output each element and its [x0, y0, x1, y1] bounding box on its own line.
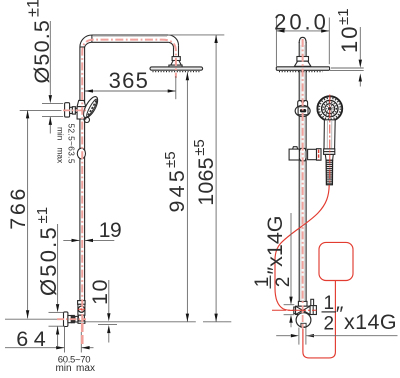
riser pipe centerline (side view, pink dash-dot): [82, 40, 176, 322]
pipe horizontal top run (side view): [92, 35, 168, 42]
handle nut band: [324, 149, 335, 155]
shower head connector nut (side view): [172, 57, 180, 61]
front valve right body: [310, 306, 316, 315]
upper escutcheon plate (side view): [65, 103, 70, 117]
front valve cross body: [296, 306, 311, 314]
svg-text:52.5~63.5: 52.5~63.5: [67, 124, 77, 164]
hand-shower holder bracket (side view): [77, 100, 86, 119]
dimension 766: [6, 110, 30, 318]
slider lock knob (side view): [77, 148, 85, 159]
dimension 60.5~70 min max: [55, 346, 95, 374]
svg-text:64: 64: [16, 327, 51, 351]
dimension 20.0: [274, 10, 329, 66]
upper wall-mount escutcheon ticks: [42, 103, 63, 116]
svg-text:max: max: [76, 363, 95, 374]
svg-text:min: min: [55, 363, 71, 374]
hose connector: [325, 154, 333, 160]
svg-text:±1: ±1: [25, 0, 43, 17]
pipe top-left bend (side view): [80, 35, 92, 47]
spray nozzles dotted row (front view): [279, 71, 323, 73]
svg-text:2: 2: [324, 313, 335, 334]
front valve right stub: [311, 299, 314, 306]
front valve bell circle: [296, 313, 311, 328]
valve lower body (side view): [78, 315, 84, 321]
svg-text:Ø50.5: Ø50.5: [30, 19, 54, 84]
svg-text:min: min: [56, 127, 66, 141]
svg-text:″x14G: ″x14G: [263, 216, 287, 275]
dimension 64: [5, 327, 64, 351]
front valve collar: [298, 301, 307, 306]
front head connector nut: [297, 57, 309, 62]
svg-text:19: 19: [99, 219, 121, 242]
slider holder pipe bulges: [299, 148, 306, 160]
slider holder right block: [308, 149, 317, 159]
lower stem (side view): [75, 316, 78, 322]
upper wall bracket tab (front view): [298, 101, 308, 107]
dimension 945 +-5: [162, 72, 189, 322]
upper wall bracket face plate: [298, 107, 308, 115]
upper wall-mount red centerline: [63, 109, 88, 111]
overhead shower disc (side view): [150, 67, 203, 70]
front pipe centerline (pink dash-dot): [302, 39, 304, 306]
lower wall nut (side view): [71, 315, 75, 323]
svg-text:Ø50.5: Ø50.5: [36, 225, 61, 296]
svg-text:x14G: x14G: [344, 310, 397, 334]
dimension O50.5 +-1 top: [25, 0, 55, 134]
svg-text:766: 766: [6, 186, 30, 230]
pipe elbow down to shower head (side view): [168, 35, 178, 57]
dimension 1/2 x14G left (rotated): [252, 213, 294, 327]
hand shower handle (front view): [324, 120, 335, 149]
supply stub centerline below valve (side view): [81, 323, 84, 347]
riser pipe vertical run (side view): [80, 46, 85, 301]
hand shower centerline (red): [329, 95, 331, 185]
svg-text:″: ″: [336, 302, 344, 326]
svg-text:2: 2: [273, 277, 294, 288]
lower nipple (side view): [68, 316, 71, 323]
valve foot (side view): [78, 321, 85, 323]
upper wall bracket slot: [300, 109, 306, 112]
lower centerline gray extension: [5, 318, 63, 320]
extension line flange face down: [64, 327, 66, 353]
svg-text:20.0: 20.0: [274, 10, 329, 35]
overhead shower disc (front view): [276, 67, 329, 71]
upper nipple (side view): [70, 107, 73, 113]
ribbed hose (front view): [326, 160, 333, 185]
upper stem (side view): [75, 108, 78, 112]
shower head mounting cap (side view): [169, 65, 182, 67]
svg-text:945: 945: [165, 167, 189, 212]
svg-text:max: max: [56, 148, 66, 165]
front valve left port: [294, 307, 296, 314]
mixer box outline (red rounded rect): [319, 242, 353, 280]
svg-text:±1: ±1: [34, 207, 51, 224]
outlet level line B: [98, 324, 117, 326]
svg-text:1065: 1065: [194, 157, 218, 206]
lower escutcheon ticks: [49, 312, 64, 326]
front head cone flange: [294, 61, 311, 66]
lower red centerline: [57, 318, 86, 320]
diverter valve collar (side view): [78, 301, 86, 305]
front riser pipe: [299, 37, 306, 301]
diverter knob (side view): [78, 306, 85, 312]
svg-text:±5: ±5: [191, 139, 208, 156]
slider holder left block (front view): [289, 147, 299, 160]
diverter valve body (side view): [78, 304, 85, 315]
svg-text:±5: ±5: [162, 151, 179, 168]
front valve bottom nub: [301, 323, 306, 327]
extension line pipe center down: [80, 332, 82, 353]
svg-text:1: 1: [324, 293, 335, 314]
dimension 365: [85, 68, 176, 99]
front valve pink centerline through bell: [302, 306, 304, 329]
red supply loop from box to valve: [303, 281, 336, 358]
dimension 10 (side view): [88, 278, 112, 342]
shower head ball joint cone (side view): [171, 61, 182, 66]
spray nozzles dotted row (side view): [153, 71, 201, 73]
upper nut (side view): [72, 107, 75, 114]
upper wall-mount centerline extension: [20, 109, 62, 111]
svg-text:365: 365: [109, 68, 150, 93]
hand shower head (front view): [317, 96, 342, 121]
dimension 52.5~63.5 min max (rotated): [56, 124, 77, 165]
dimension O50.5 +-1 bottom: [34, 207, 61, 346]
hand shower head edge-on (side view): [81, 95, 101, 120]
upper wall bracket knob ellipse (front view): [295, 105, 310, 116]
svg-text:10: 10: [88, 278, 112, 305]
dimension 1/2 x14G bottom (front): [276, 293, 397, 345]
upper wall bracket notch: [301, 101, 305, 103]
dimension 10 +-1 (disc thickness): [330, 8, 364, 86]
lower escutcheon plate (side view): [64, 312, 68, 327]
hose red curve (front view): [275, 185, 329, 310]
front valve red centerline horizontal: [272, 309, 316, 311]
dimension 19: [63, 219, 121, 242]
hand shower hook (side view): [84, 117, 89, 122]
slider holder cup cap: [317, 149, 322, 161]
svg-text:±1: ±1: [335, 8, 352, 25]
outlet level line A: [85, 321, 231, 323]
svg-text:10: 10: [337, 25, 362, 53]
dimension 1065 +-5: [168, 35, 224, 322]
